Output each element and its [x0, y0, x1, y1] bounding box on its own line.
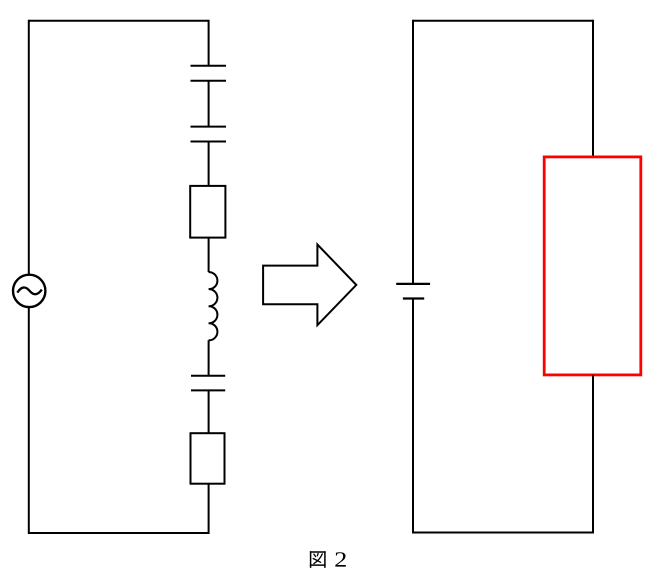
capacitor C1: [191, 66, 227, 81]
wire top right vertical (corner to C1): [208, 20, 210, 66]
wire right-loop right vertical upper (corner to load): [592, 20, 594, 157]
wire left-loop top horizontal: [29, 20, 209, 22]
arrow (transformation): [263, 245, 356, 326]
capacitor C3: [191, 376, 225, 391]
wire left-loop bottom horizontal: [29, 532, 209, 534]
battery B1 long plate: [396, 283, 430, 285]
resistor R1 (box): [190, 186, 225, 238]
wire load to bottom corner: [592, 375, 594, 534]
wire left-loop left vertical (top corner to AC source): [28, 20, 30, 274]
wire C1 to C2: [208, 81, 210, 127]
wire L1 to C3: [208, 340, 210, 375]
capacitor C2: [191, 127, 227, 142]
caption glyph 図: [311, 552, 325, 567]
wire right-loop top horizontal: [413, 20, 593, 22]
wire C3 to R2: [208, 390, 210, 433]
wire left-loop left vertical (AC source to bottom corner): [28, 308, 30, 534]
wire right-loop left vertical (corner to battery): [412, 20, 414, 284]
resistor R2 (box): [191, 433, 225, 484]
inductor L1: [209, 272, 218, 340]
wire R1 to L1: [208, 238, 210, 273]
wire C2 to R1: [208, 142, 210, 186]
load resistor R3 (red box): [544, 157, 641, 375]
wire right-loop bottom horizontal: [413, 532, 593, 534]
wire R2 to bottom corner: [208, 484, 210, 534]
caption text 2: [335, 552, 346, 566]
wire battery to bottom corner: [412, 299, 414, 534]
AC source V1: [13, 275, 45, 307]
battery B1 short plate: [403, 297, 424, 299]
